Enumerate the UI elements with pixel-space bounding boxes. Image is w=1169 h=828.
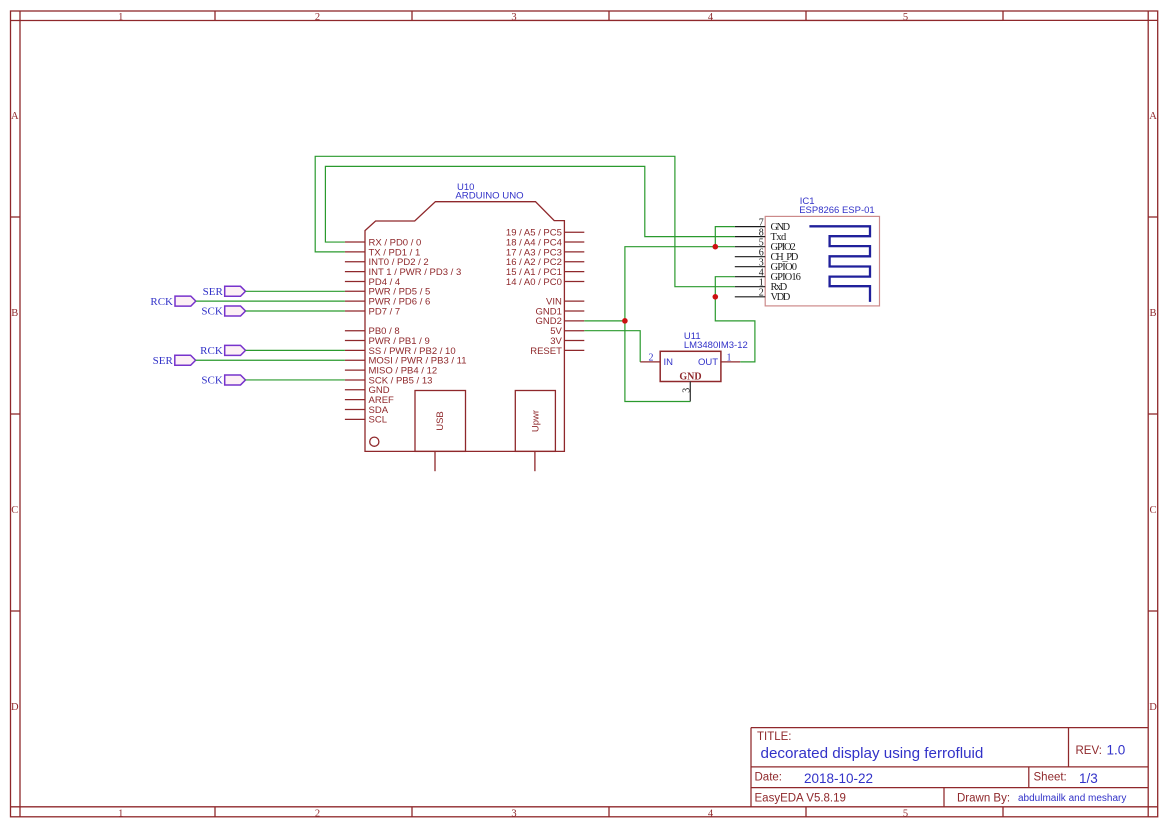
svg-text:1.0: 1.0 <box>1107 743 1126 758</box>
pin U10 18 / A4 / PC4 <box>564 241 584 243</box>
pin U10 19 / A5 / PC5 <box>564 231 584 233</box>
svg-text:EasyEDA V5.8.19: EasyEDA V5.8.19 <box>755 793 846 805</box>
pin U10 GND1 <box>564 310 584 312</box>
svg-text:ARDUINO UNO: ARDUINO UNO <box>455 191 523 202</box>
U10 right pins <box>564 232 584 350</box>
svg-text:3: 3 <box>681 388 692 393</box>
wire RCK to PD6 <box>196 300 345 302</box>
pin U10 PB0 / 8 <box>345 330 365 332</box>
component IC1 ESP8266 ESP-01 <box>765 196 879 306</box>
wire junction up to GPIO2 <box>625 247 735 321</box>
svg-text:D: D <box>1149 702 1157 713</box>
U10 left pin names <box>369 237 467 425</box>
svg-text:GND: GND <box>679 371 701 382</box>
svg-text:3: 3 <box>511 808 516 819</box>
svg-text:Drawn By:: Drawn By: <box>957 793 1010 805</box>
svg-text:2: 2 <box>315 12 320 23</box>
svg-text:4: 4 <box>708 12 714 23</box>
IC1 antenna <box>809 226 870 302</box>
svg-text:A: A <box>11 111 19 122</box>
svg-text:A: A <box>1149 111 1157 122</box>
net flag RCK (upper) <box>150 296 195 308</box>
wire U11 OUT to VDD and GPIO16 <box>715 277 755 362</box>
pin U10 SCK / PB5 / 13 <box>345 379 365 381</box>
svg-text:RESET: RESET <box>530 346 562 357</box>
svg-text:USB: USB <box>435 411 446 431</box>
pin U10 PWR / PD5 / 5 <box>345 290 365 292</box>
pin U10 MISO / PB4 / 12 <box>345 369 365 371</box>
svg-text:2: 2 <box>315 808 320 819</box>
svg-text:SER: SER <box>153 355 174 367</box>
pin U10 PD7 / 7 <box>345 310 365 312</box>
IC1 pin numbers <box>759 217 764 298</box>
IC1 pin names <box>771 222 801 303</box>
wire SER to PB3 <box>196 359 345 361</box>
junction at GND2 <box>622 318 628 324</box>
pin U10 SS / PWR / PB2 / 10 <box>345 349 365 351</box>
svg-text:1: 1 <box>118 808 123 819</box>
pin U10 3V <box>564 340 584 342</box>
svg-text:C: C <box>11 505 18 516</box>
pin U10 RESET <box>564 349 584 351</box>
svg-text:OUT: OUT <box>698 357 718 368</box>
U10 left pins <box>345 242 365 419</box>
svg-text:SCK: SCK <box>201 375 222 387</box>
svg-text:5: 5 <box>903 808 908 819</box>
svg-text:decorated display using ferrof: decorated display using ferrofluid <box>761 745 984 762</box>
title block <box>751 728 1148 807</box>
svg-text:C: C <box>1149 505 1156 516</box>
pin U10 RX / PD0 / 0 <box>345 241 365 243</box>
svg-text:RCK: RCK <box>150 296 173 308</box>
wires (green) <box>196 156 755 401</box>
svg-text:SCL: SCL <box>369 415 387 426</box>
pin U10 15 / A1 / PC1 <box>564 271 584 273</box>
svg-text:SCK: SCK <box>201 306 222 318</box>
pin U10 SCL <box>345 418 365 420</box>
pin U10 INT0 / PD2 / 2 <box>345 261 365 263</box>
pin U10 GND <box>345 389 365 391</box>
pin IC1 GND (7) <box>735 226 765 228</box>
svg-text:Upwr: Upwr <box>531 410 542 432</box>
svg-text:14 / A0 / PC0: 14 / A0 / PC0 <box>506 277 562 288</box>
wire ESP GND down to GPIO2 junction <box>715 227 735 247</box>
pin U10 AREF <box>345 399 365 401</box>
wire 5V to U11 IN <box>584 331 640 362</box>
svg-text:2018-10-22: 2018-10-22 <box>804 771 873 786</box>
svg-text:1: 1 <box>727 353 732 364</box>
svg-text:LM3480IM3-12: LM3480IM3-12 <box>684 340 748 351</box>
pin IC1 GPIO0 (3) <box>735 266 765 268</box>
svg-text:2: 2 <box>759 288 764 299</box>
net flag SCK (lower) <box>201 375 245 387</box>
svg-text:REV:: REV: <box>1076 745 1102 757</box>
net flag SER (upper) <box>203 286 246 298</box>
svg-text:Date:: Date: <box>755 772 783 784</box>
wire SCK to PD7 <box>246 310 345 312</box>
svg-text:ESP8266 ESP-01: ESP8266 ESP-01 <box>799 205 875 216</box>
svg-text:2: 2 <box>649 353 654 364</box>
pin U10 5V <box>564 330 584 332</box>
svg-text:VDD: VDD <box>771 292 791 303</box>
svg-text:1: 1 <box>118 12 123 23</box>
wire TX to ESP RxD (outer loop) <box>315 156 735 286</box>
IC1 pins <box>735 227 765 297</box>
wire SER to PD5 <box>246 290 345 292</box>
svg-text:Sheet:: Sheet: <box>1034 772 1067 784</box>
wire junction down to U11 pin3 <box>625 321 690 402</box>
svg-text:4: 4 <box>708 808 714 819</box>
svg-text:3: 3 <box>511 12 516 23</box>
pin IC1 RxD (1) <box>735 286 765 288</box>
pin U10 TX / PD1 / 1 <box>345 251 365 253</box>
wire RX to ESP Txd (inner loop) <box>325 166 734 242</box>
pin U10 MOSI / PWR / PB3 / 11 <box>345 359 365 361</box>
U10 right pin names <box>506 228 563 357</box>
wire RCK to PB2 <box>246 349 345 351</box>
net flag RCK (lower) <box>200 345 245 357</box>
component U10 ARDUINO UNO <box>365 182 564 471</box>
wire SCK to PB5 <box>246 379 345 381</box>
pin U10 INT 1 / PWR / PD3 / 3 <box>345 271 365 273</box>
net flag SCK (upper) <box>201 306 245 318</box>
svg-text:B: B <box>11 308 18 319</box>
pin U10 PWR / PD6 / 6 <box>345 300 365 302</box>
pin U10 VIN <box>564 300 584 302</box>
svg-text:IN: IN <box>664 357 674 368</box>
pin U10 17 / A3 / PC3 <box>564 251 584 253</box>
svg-text:B: B <box>1149 308 1156 319</box>
pin IC1 CH_PD (6) <box>735 256 765 258</box>
wire GND2 to junction <box>584 320 625 322</box>
svg-text:5: 5 <box>903 12 908 23</box>
junction at GPIO2 <box>713 244 719 250</box>
svg-text:TITLE:: TITLE: <box>757 731 792 743</box>
svg-text:RCK: RCK <box>200 345 223 357</box>
pin IC1 GPIO2 (5) <box>735 246 765 248</box>
svg-text:SER: SER <box>203 286 224 298</box>
net flag SER (lower) <box>153 355 196 367</box>
pin U10 GND2 <box>564 320 584 322</box>
pin U10 PD4 / 4 <box>345 280 365 282</box>
pin U10 16 / A2 / PC2 <box>564 261 584 263</box>
svg-text:PD7 / 7: PD7 / 7 <box>369 306 401 317</box>
junction at VDD <box>713 294 719 300</box>
pin U10 SDA <box>345 409 365 411</box>
svg-text:abdulmailk and meshary: abdulmailk and meshary <box>1018 793 1126 804</box>
pin IC1 GPIO16 (4) <box>735 276 765 278</box>
component U11 LM3480IM3-12 <box>640 331 748 401</box>
svg-text:D: D <box>11 702 19 713</box>
pin IC1 Txd (8) <box>735 236 765 238</box>
svg-text:1/3: 1/3 <box>1079 771 1098 786</box>
pin IC1 VDD (2) <box>735 296 765 298</box>
pin U10 PWR / PB1 / 9 <box>345 340 365 342</box>
pin U10 14 / A0 / PC0 <box>564 280 584 282</box>
